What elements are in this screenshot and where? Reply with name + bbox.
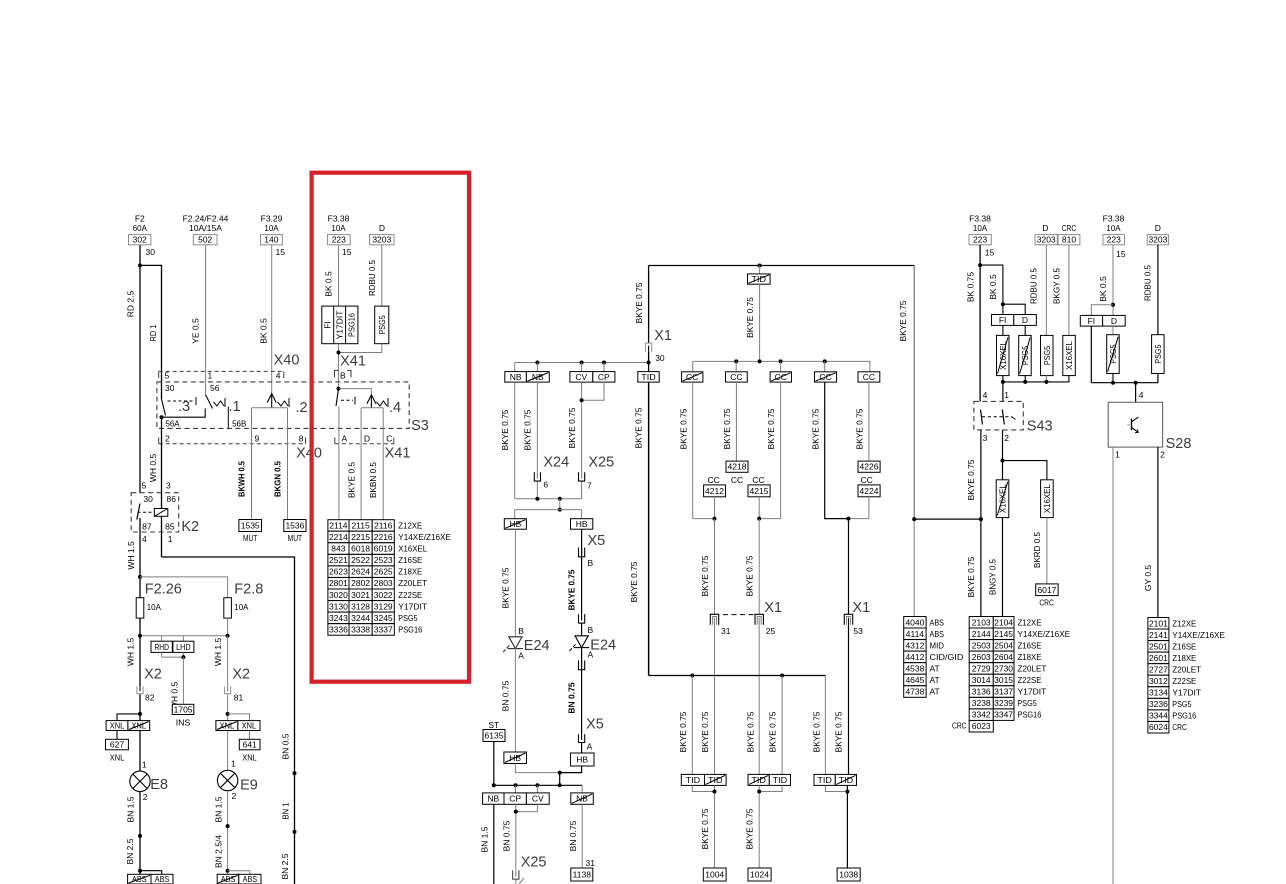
variant box X16XEL plain second: [1041, 480, 1054, 518]
svg-text:BKYE 0.75: BKYE 0.75: [745, 808, 755, 849]
ground wire BN labels: [280, 733, 297, 879]
svg-text:BN 1: BN 1: [281, 802, 291, 819]
terminal 3203 D second: [1147, 223, 1168, 245]
wire to X1 pin 53: [848, 519, 850, 775]
svg-text:C: C: [386, 433, 392, 443]
label BKYE 0.75 on X1 wire: [634, 282, 644, 323]
fuse F2 terminal 302: [129, 214, 156, 258]
svg-text:HB: HB: [576, 519, 588, 529]
svg-text:X24: X24: [543, 455, 569, 471]
label X5 lower and connector pin A: [578, 717, 604, 752]
wire BK 0.75 to S43 pin 4: [966, 245, 988, 402]
wire BKYE 0.75 from CC2 to 4218: [722, 382, 736, 461]
svg-text:Y17DIT: Y17DIT: [398, 601, 427, 611]
svg-text:2: 2: [1004, 433, 1009, 443]
S3 label 56B: [232, 419, 247, 429]
connector X40 bracket pins 5 1 4: [159, 371, 284, 381]
svg-text:2730: 2730: [994, 664, 1013, 674]
svg-text:31: 31: [586, 858, 596, 868]
S3 wire to 56B: [227, 407, 229, 429]
svg-text:3134: 3134: [1149, 688, 1168, 698]
label B left lamp: [518, 626, 524, 636]
electronic module S28 box: [1108, 402, 1162, 447]
svg-text:B: B: [518, 626, 524, 636]
S3 contact .1: [206, 395, 241, 415]
variant boxes FI D first: [992, 315, 1037, 326]
svg-text:BKYE 0.75: BKYE 0.75: [812, 711, 822, 752]
wire WH 0.5 X40 pin2 to relay K2: [148, 417, 162, 509]
wire GY 0.5 S28 pin2 to table: [1143, 447, 1158, 618]
svg-text:B: B: [588, 625, 594, 635]
svg-text:ABS: ABS: [930, 617, 945, 627]
svg-text:BKRD 0.5: BKRD 0.5: [1032, 532, 1042, 568]
svg-text:1: 1: [168, 534, 173, 544]
svg-text:FI: FI: [1088, 316, 1096, 326]
connector X1 pin 53: [844, 600, 871, 636]
svg-text:3129: 3129: [374, 601, 393, 611]
S3 internal pin labels 30 56: [165, 383, 220, 393]
svg-text:.1: .1: [229, 399, 241, 415]
svg-text:S43: S43: [1027, 419, 1053, 435]
svg-text:BKYE 0.75: BKYE 0.75: [966, 459, 976, 500]
svg-text:BKYE 0.75: BKYE 0.75: [678, 711, 688, 752]
label X25 lower and connector: [512, 855, 547, 884]
svg-text:2: 2: [1160, 450, 1165, 460]
svg-text:D: D: [1111, 316, 1117, 326]
svg-text:X16XEL: X16XEL: [398, 544, 427, 554]
terminal 6017 CRC: [1036, 584, 1058, 608]
svg-text:AT: AT: [930, 687, 940, 697]
svg-text:GY 0.5: GY 0.5: [1143, 565, 1153, 592]
svg-text:MUT: MUT: [288, 533, 303, 543]
svg-text:BKYE 0.75: BKYE 0.75: [746, 711, 756, 752]
svg-text:2623: 2623: [329, 567, 348, 577]
svg-text:1: 1: [1115, 450, 1120, 460]
wire BKYE 0.75 from CC5 to 4224: [855, 382, 869, 461]
label RD 1: [148, 324, 158, 341]
svg-text:31: 31: [721, 626, 731, 636]
svg-text:CV: CV: [575, 372, 587, 382]
svg-text:BN 0.75: BN 0.75: [501, 680, 511, 711]
branch to FI box second: [1091, 305, 1113, 316]
S3 output wires to pins A D C: [339, 407, 383, 443]
svg-text:BKBN 0.5: BKBN 0.5: [368, 462, 378, 498]
svg-text:BKYE 0.75: BKYE 0.75: [567, 569, 577, 610]
svg-text:BKYE 0.75: BKYE 0.75: [634, 282, 644, 323]
S3 node 56A link: [160, 409, 206, 420]
svg-text:Y14XE/Z16XE: Y14XE/Z16XE: [1018, 629, 1071, 639]
variant box HB crossed left: [504, 519, 526, 530]
wire WH 1.5 right to connector X2 pin 81: [213, 636, 228, 721]
junction to X41 pin B: [337, 344, 382, 382]
svg-text:2603: 2603: [972, 652, 991, 662]
svg-text:BKYE 0.5: BKYE 0.5: [347, 462, 357, 498]
svg-text:4226: 4226: [860, 462, 879, 472]
svg-text:CC: CC: [731, 475, 743, 485]
svg-text:2214: 2214: [329, 532, 348, 542]
svg-text:D: D: [364, 433, 370, 443]
svg-text:86: 86: [167, 494, 177, 504]
wire RDBU 0.5 to PSG5: [1029, 245, 1047, 336]
S43 pins 3 2: [983, 433, 1010, 443]
svg-text:X16XEL: X16XEL: [1064, 341, 1074, 370]
svg-text:FI: FI: [999, 315, 1007, 325]
svg-text:2522: 2522: [351, 555, 370, 565]
variant box CC crossed 3: [770, 372, 791, 382]
terminal 4226 CC: [858, 461, 880, 485]
label X25 and connector pin 7: [578, 455, 615, 491]
svg-text:PSG5: PSG5: [377, 315, 387, 334]
relay K2 coil: [154, 509, 168, 517]
relay K2 pin labels: [142, 480, 177, 544]
svg-text:X25: X25: [521, 855, 547, 871]
svg-text:3342: 3342: [972, 710, 991, 720]
svg-text:K2: K2: [181, 519, 199, 535]
svg-text:3136: 3136: [972, 687, 991, 697]
svg-text:3236: 3236: [1149, 699, 1168, 709]
label X41 lower: [385, 446, 411, 462]
svg-text:10A: 10A: [973, 223, 988, 233]
svg-text:ST: ST: [488, 720, 499, 730]
top distribution line: [649, 266, 915, 520]
svg-text:4224: 4224: [860, 486, 879, 496]
variant boxes TID pair 2: [748, 774, 791, 785]
svg-text:3012: 3012: [1149, 676, 1168, 686]
svg-text:PSG5: PSG5: [1153, 344, 1163, 363]
svg-text:1705: 1705: [174, 704, 193, 714]
svg-text:223: 223: [1107, 235, 1121, 245]
svg-text:85: 85: [165, 521, 175, 531]
S3 contact .3: [162, 397, 197, 416]
svg-text:60A: 60A: [133, 223, 148, 233]
wire BKYE 0.75 S43 pin3 to table: [966, 430, 981, 617]
svg-text:1: 1: [231, 758, 236, 768]
svg-text:BKYE 0.75: BKYE 0.75: [500, 409, 510, 450]
svg-text:MUT: MUT: [243, 533, 258, 543]
switch assembly S3 dashed outline: [157, 382, 409, 429]
svg-text:7: 7: [587, 480, 592, 490]
svg-text:X2: X2: [144, 667, 162, 683]
svg-text:4312: 4312: [905, 640, 924, 650]
svg-text:140: 140: [264, 235, 278, 245]
svg-text:CC: CC: [863, 372, 875, 382]
svg-text:1535: 1535: [241, 521, 260, 531]
wire K2 coil to ground bus: [162, 516, 295, 884]
terminal 3203 D first: [1035, 223, 1057, 245]
illumination LED E24 left: [503, 637, 549, 654]
svg-text:2141: 2141: [1149, 630, 1168, 640]
relay K2 contact blade: [137, 504, 154, 520]
wire BKYE 0.75 from CC1: [678, 382, 714, 518]
svg-text:X2: X2: [232, 667, 250, 683]
svg-text:223: 223: [332, 235, 346, 245]
connector label X40: [274, 353, 300, 369]
svg-text:2803: 2803: [374, 578, 393, 588]
wire BKYE 0.75 from CC4: [810, 382, 848, 518]
svg-text:PSG16: PSG16: [398, 624, 422, 634]
svg-text:WH 1.5: WH 1.5: [126, 541, 136, 570]
svg-text:15: 15: [342, 247, 352, 257]
S3 contact .2 arrow: [252, 394, 308, 416]
svg-text:2727: 2727: [1149, 665, 1168, 675]
svg-text:1: 1: [142, 760, 147, 770]
wire RD 1 branch to S3: [138, 263, 162, 399]
terminal 810 CRC: [1058, 223, 1080, 245]
svg-text:2145: 2145: [994, 629, 1013, 639]
wire left lamp branch BKYE 0.75: [501, 529, 516, 636]
wire BKYE 0.75 from CC3 to 4215: [759, 382, 780, 518]
wire S43 pin2 to table: [988, 430, 1005, 617]
svg-text:BKGY 0.5: BKGY 0.5: [1052, 268, 1062, 304]
variant box HB lower right: [571, 753, 595, 766]
svg-text:4040: 4040: [905, 617, 924, 627]
svg-text:6023: 6023: [972, 721, 991, 731]
svg-text:3203: 3203: [372, 235, 391, 245]
svg-text:1: 1: [208, 371, 213, 381]
S28 transistor symbol: [1127, 417, 1138, 432]
svg-text:4412: 4412: [905, 652, 924, 662]
svg-text:2501: 2501: [1149, 641, 1168, 651]
svg-text:Z16SE: Z16SE: [398, 555, 422, 565]
svg-text:A: A: [342, 433, 348, 443]
svg-text:Z12XE: Z12XE: [398, 521, 422, 531]
svg-text:BKYE 0.75: BKYE 0.75: [678, 408, 688, 449]
ground boxes ABS right: [217, 874, 261, 884]
connector X41 lower bracket pins A D C: [335, 433, 394, 443]
wires CV CP join: [567, 382, 604, 499]
wires CP CV join to X25: [501, 804, 537, 870]
lamp E9: [217, 731, 257, 802]
label X1 and pin 30: [645, 328, 672, 363]
engine table 2103 2104: [952, 617, 1070, 733]
svg-text:3239: 3239: [994, 698, 1013, 708]
terminal ST 6135: [483, 720, 505, 785]
svg-text:MID: MID: [930, 640, 945, 650]
svg-text:8: 8: [299, 433, 304, 443]
fuse F2.24/F2.44 terminal 502: [183, 214, 229, 245]
svg-text:PSG5: PSG5: [1018, 698, 1037, 708]
S28 pins 1 2: [1115, 450, 1165, 460]
svg-text:YE 0.5: YE 0.5: [191, 318, 201, 344]
svg-text:56B: 56B: [232, 419, 247, 429]
svg-text:BN 0.75: BN 0.75: [501, 820, 511, 851]
svg-text:BN 0.5: BN 0.5: [281, 733, 291, 759]
svg-text:BN 1.5: BN 1.5: [214, 796, 224, 822]
svg-text:XNL: XNL: [242, 753, 257, 763]
svg-text:RHD: RHD: [154, 642, 169, 652]
svg-text:B: B: [340, 371, 346, 381]
wires below fuses to RHD/LHD bus: [138, 618, 230, 638]
svg-text:3344: 3344: [1149, 711, 1168, 721]
wire WH 1.5 left to connector X2 pin 82: [126, 636, 141, 721]
variant box PSG5 plain second: [1152, 335, 1165, 374]
connector label X41: [340, 354, 366, 370]
terminal 3203 node D: [370, 223, 395, 245]
svg-text:HB: HB: [576, 755, 588, 765]
accessory bus right CC row: [693, 359, 870, 371]
svg-text:3238: 3238: [972, 698, 991, 708]
svg-text:1004: 1004: [705, 870, 724, 880]
svg-text:6019: 6019: [374, 544, 393, 554]
svg-text:AT: AT: [930, 675, 940, 685]
variant boxes NB CP CV lower: [483, 785, 550, 804]
svg-text:1536: 1536: [285, 521, 304, 531]
wire drop to ABS table: [912, 517, 916, 616]
svg-text:BKYE 0.75: BKYE 0.75: [700, 711, 710, 752]
svg-text:A: A: [518, 651, 524, 661]
svg-text:2624: 2624: [351, 567, 370, 577]
variant box X16XEL plain: [1063, 335, 1076, 375]
svg-text:81: 81: [234, 693, 244, 703]
variant box NB crossed lower: [571, 785, 594, 804]
svg-text:Z22SE: Z22SE: [1172, 676, 1196, 686]
terminal 1705 INS: [172, 704, 194, 727]
svg-text:3347: 3347: [994, 710, 1013, 720]
connector X40 lower bracket pins 2 9 8: [159, 433, 306, 443]
connector X2 pin 82 symbol: [136, 686, 155, 703]
terminal 627 XNL: [106, 731, 129, 763]
svg-text:3338: 3338: [351, 624, 370, 634]
svg-text:X1: X1: [853, 600, 871, 616]
svg-text:BKWH 0.5: BKWH 0.5: [237, 461, 247, 497]
label S43: [1027, 419, 1053, 435]
svg-text:2216: 2216: [374, 532, 393, 542]
svg-text:9: 9: [255, 433, 260, 443]
svg-text:RD 1: RD 1: [148, 324, 158, 341]
svg-text:BKYE 0.75: BKYE 0.75: [700, 555, 710, 596]
svg-text:S28: S28: [1166, 436, 1192, 452]
svg-text:4212: 4212: [705, 486, 724, 496]
wire RDBU 0.5 second: [1143, 245, 1158, 335]
label RD 2.5: [126, 291, 136, 318]
svg-text:Y17DIT: Y17DIT: [335, 311, 345, 340]
label X2 right: [232, 667, 250, 683]
svg-text:10A: 10A: [331, 223, 346, 233]
svg-text:PSG16: PSG16: [1172, 711, 1196, 721]
lamp connector pin B right: [578, 614, 594, 635]
svg-text:CC: CC: [730, 372, 742, 382]
svg-text:X5: X5: [586, 717, 604, 733]
svg-text:4: 4: [1139, 390, 1144, 400]
svg-text:2802: 2802: [351, 578, 370, 588]
svg-text:82: 82: [145, 693, 155, 703]
svg-text:RDBU 0.5: RDBU 0.5: [367, 260, 377, 296]
svg-text:.2: .2: [296, 400, 308, 416]
svg-text:3020: 3020: [329, 590, 348, 600]
wire BK 0.5 to Y17DIT box: [324, 245, 339, 306]
wire BKGY 0.5 to X16XEL: [1052, 245, 1069, 336]
svg-text:BKYE 0.75: BKYE 0.75: [523, 409, 533, 450]
svg-text:3245: 3245: [374, 613, 393, 623]
connector X41 bracket pin B: [335, 370, 352, 380]
label A left lamp: [518, 651, 524, 661]
svg-text:E8: E8: [150, 777, 168, 793]
svg-text:X41: X41: [340, 354, 366, 370]
variant box PSG5: [375, 306, 389, 344]
svg-text:6135: 6135: [485, 731, 504, 741]
svg-text:XNL: XNL: [110, 753, 125, 763]
svg-text:BKYE 0.75: BKYE 0.75: [855, 408, 865, 449]
terminal 4215 CC: [748, 475, 770, 521]
svg-text:CRC: CRC: [1039, 598, 1054, 608]
S3 label 56A: [165, 419, 180, 429]
svg-text:CRC: CRC: [1172, 722, 1187, 732]
svg-text:CP: CP: [509, 794, 521, 804]
svg-text:BKYE 0.75: BKYE 0.75: [700, 808, 710, 849]
svg-text:4: 4: [276, 371, 281, 381]
svg-text:Y14XE/Z16XE: Y14XE/Z16XE: [1172, 630, 1225, 640]
wire BKYE 0.75 crossed NB branch to X24 pin 6: [523, 382, 538, 499]
svg-text:10A: 10A: [234, 602, 249, 612]
svg-text:843: 843: [331, 544, 345, 554]
svg-text:6: 6: [543, 480, 548, 490]
svg-text:BKYE 0.75: BKYE 0.75: [634, 407, 644, 448]
engine variant table for S3 outputs: [328, 520, 451, 636]
svg-text:2: 2: [143, 792, 148, 802]
svg-text:BN 1.5: BN 1.5: [126, 796, 136, 822]
svg-text:D: D: [1042, 223, 1048, 233]
switch S43 dashed box: [974, 401, 1023, 430]
svg-text:LHD: LHD: [176, 642, 191, 652]
svg-text:X16XEL: X16XEL: [1042, 484, 1052, 513]
svg-text:WH 1.5: WH 1.5: [126, 638, 136, 667]
svg-text:6017: 6017: [1037, 585, 1056, 595]
svg-text:ABS: ABS: [243, 874, 258, 884]
svg-text:3022: 3022: [374, 590, 393, 600]
left feed wire RD 2.5 from fuse terminal 302: [139, 245, 141, 493]
svg-text:2601: 2601: [1149, 653, 1168, 663]
crossed variant box PSG5 second: [1107, 326, 1120, 373]
svg-text:RD 2.5: RD 2.5: [126, 291, 136, 318]
svg-text:Z16SE: Z16SE: [1018, 640, 1042, 650]
terminal 1536 MUT: [284, 520, 306, 544]
svg-text:PSG5: PSG5: [398, 613, 417, 623]
svg-text:WH 0.5: WH 0.5: [148, 454, 158, 483]
svg-text:Z20LET: Z20LET: [1172, 665, 1201, 675]
svg-text:NB: NB: [510, 372, 522, 382]
svg-text:CP: CP: [598, 372, 610, 382]
variant boxes TID pair 3: [814, 774, 857, 785]
svg-text:2625: 2625: [374, 567, 393, 577]
svg-text:XNL: XNL: [110, 721, 125, 731]
svg-text:1024: 1024: [750, 870, 769, 880]
crossed variant box PSG5: [1019, 325, 1031, 375]
svg-text:BN 0.75: BN 0.75: [567, 682, 577, 713]
ABS variant table: [904, 617, 964, 698]
label S28: [1166, 436, 1192, 452]
wire BKRD 0.5 to terminal 6017: [1032, 518, 1047, 584]
svg-text:TID: TID: [817, 775, 832, 785]
svg-text:AT: AT: [930, 664, 940, 674]
svg-text:BKYE 0.75: BKYE 0.75: [966, 556, 976, 597]
svg-text:15: 15: [276, 247, 286, 257]
link to S43 pin 3 wire: [914, 517, 983, 521]
svg-text:3203: 3203: [1148, 235, 1167, 245]
svg-text:X40: X40: [296, 446, 322, 462]
svg-text:15: 15: [1116, 249, 1126, 259]
TID pair 1 join to terminal 1004: [692, 785, 726, 881]
svg-text:BKYE 0.75: BKYE 0.75: [810, 408, 820, 449]
svg-text:BK 0.75: BK 0.75: [966, 272, 976, 303]
svg-text:3: 3: [166, 480, 171, 490]
S3 pin B feed and dot: [337, 382, 372, 395]
svg-text:BKYE 0.75: BKYE 0.75: [501, 567, 511, 608]
svg-text:810: 810: [1062, 235, 1076, 245]
variant bus to S43 pin 1: [1001, 376, 1069, 402]
svg-text:D: D: [1155, 223, 1161, 233]
TID feed branch line: [649, 674, 826, 775]
variant box CC 2: [726, 372, 748, 382]
